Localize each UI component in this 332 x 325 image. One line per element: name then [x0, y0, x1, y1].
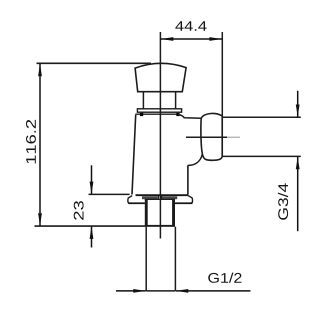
- outlet horizontal centerline: [186, 136, 227, 138]
- right seal dot: [176, 113, 179, 116]
- dim line 44.4: [160, 38, 222, 40]
- G1/2 dim line left segment with right-pointing arrowhead: [116, 290, 146, 292]
- hatched seat band left: [142, 196, 158, 199]
- label 23: [74, 201, 84, 220]
- base flange left part: [128, 196, 145, 204]
- dim line 116.2: [39, 63, 41, 226]
- outlet spout (G3/4): [201, 113, 222, 160]
- arrowhead left of dim 44.4: [161, 37, 173, 41]
- body top edge line: [135, 113, 178, 115]
- label G3/4: [278, 183, 288, 220]
- flange bottom thick edge right: [175, 202, 192, 204]
- left seal dot: [140, 113, 143, 116]
- G3/4 extension line top (outlet top reference): [223, 116, 301, 118]
- arrowhead top of dim 116.2: [38, 64, 42, 76]
- label 116.2: [26, 120, 36, 164]
- dim 23 upper tail with down arrowhead: [91, 165, 93, 194]
- extension line right of dim 44.4 (outlet end): [221, 32, 223, 157]
- fillet outlet to body: [188, 154, 203, 166]
- G1/2 dim line right segment with left-pointing arrowhead: [176, 290, 251, 292]
- threaded shank right line (G1/2): [174, 227, 176, 291]
- G3/4 extension line bottom (outlet bottom reference): [223, 155, 301, 157]
- shank bottom edge: [146, 290, 175, 292]
- body left edge: [132, 115, 136, 195]
- locknut top edge line: [145, 198, 175, 200]
- center slot: [157, 196, 159, 200]
- threaded shank left line (G1/2): [145, 227, 147, 291]
- extension line for dim 23 (flange top reference): [89, 193, 130, 195]
- centerline (valve vertical axis, left extension of dim 44.4): [159, 32, 161, 239]
- flange bottom thick edge left: [128, 202, 145, 204]
- shoulder ledge from body to outlet: [178, 115, 201, 119]
- hatched seat band right: [162, 196, 177, 199]
- locknut right thick face: [172, 199, 175, 226]
- dim 23 lower tail with up arrowhead: [91, 227, 93, 248]
- arrowhead right of dim 44.4: [209, 37, 221, 41]
- G3/4 dim upper tail with down arrowhead: [297, 91, 299, 117]
- button neck left line: [142, 92, 144, 109]
- push button cap: [135, 63, 186, 91]
- arrowhead bottom of dim 116.2: [38, 213, 42, 225]
- body right edge (below outlet): [187, 165, 189, 194]
- base flange right part: [175, 196, 192, 204]
- label G1/2: [208, 273, 241, 283]
- button neck right line: [175, 92, 177, 109]
- collar ring: [137, 109, 181, 112]
- locknut left thick face: [145, 199, 148, 226]
- body bottom edge: [136, 194, 189, 196]
- bottom extension line (shank bottom reference): [35, 225, 146, 227]
- top extension line (button top reference): [37, 62, 152, 64]
- label 44.4: [175, 21, 206, 31]
- G3/4 dim lower tail with up arrowhead: [297, 157, 299, 231]
- locknut bottom thick edge: [145, 225, 175, 227]
